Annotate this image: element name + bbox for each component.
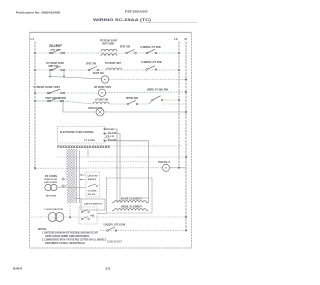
wire row3 to N (109, 79, 186, 81)
svg-text:4 WIRE AT WK: 4 WIRE AT WK (140, 46, 161, 49)
junction row5-L2 (178, 99, 180, 101)
faint header rule (140, 22, 197, 24)
switch S4 right front surface unit (51, 69, 53, 71)
terminal pin B (62, 185, 64, 187)
svg-text:6/04: 6/04 (13, 267, 23, 271)
wire motor to latch box (57, 187, 86, 189)
junction row4-N (185, 91, 187, 93)
svg-text:3P3T SW: 3P3T SW (120, 46, 131, 49)
svg-text:*L REAR SURF UNIT: *L REAR SURF UNIT (33, 86, 61, 89)
contact K1c (92, 215, 94, 217)
wire row5 (35, 100, 63, 102)
ribbon cable hatched column (67, 149, 76, 203)
wire row2 right front surface unit (35, 69, 179, 71)
wire column tail (69, 203, 71, 218)
junction row3 b (63, 76, 65, 78)
junction neutral-N (185, 216, 187, 218)
wire EOC pin4 dashed (105, 145, 183, 147)
svg-text:FEF352ASG: FEF352ASG (125, 10, 149, 14)
svg-text:ASSY: ASSY (88, 178, 98, 181)
wire L1 bus (34, 42, 36, 171)
wire row5 to L2 (162, 99, 179, 101)
motor M1 door latch (45, 184, 51, 190)
svg-text:LATCH SW: LATCH SW (88, 175, 99, 178)
switch S2 (126, 52, 128, 54)
wire row5 join (109, 103, 128, 105)
svg-text:D5EN363: D5EN363 (107, 240, 123, 244)
contact K1a (81, 211, 83, 213)
svg-text:COM: COM (88, 191, 97, 193)
wire L2 bus (178, 42, 180, 169)
wire row3 drop a (49, 70, 51, 77)
wire ribbon left edge (65, 149, 67, 178)
svg-text:SURF SIG: SURF SIG (93, 72, 104, 75)
svg-text:APPLIANCE WIRE AND GROUNDS: APPLIANCE WIRE AND GROUNDS (45, 235, 90, 238)
switch S6 three wire (146, 69, 148, 71)
wire mid dotted second (88, 161, 149, 163)
junction node row2 b (63, 69, 65, 71)
switch S10 (49, 100, 51, 102)
interlock contact box (79, 207, 97, 224)
bake broil element box (107, 178, 153, 213)
wire row4 (35, 92, 98, 94)
latch switch box (86, 172, 100, 197)
junction row5 b (62, 100, 64, 102)
svg-text:SURF: SURF (49, 44, 62, 48)
lamp oven light (96, 108, 104, 116)
arrow pin2 (103, 133, 105, 135)
wire bake feed b (119, 178, 121, 203)
svg-text:L2: L2 (174, 37, 178, 41)
wire stub strip drop (87, 149, 89, 157)
wire row3 (50, 77, 101, 79)
wire row3 drop b (63, 70, 65, 77)
switch S1 right rear surface unit (51, 52, 53, 54)
contact K1b (81, 218, 83, 220)
wire L1 lower feed (35, 167, 163, 169)
junction row4 a (47, 92, 49, 94)
svg-text:GROUNDED AT WALL RECEPTACLE: GROUNDED AT WALL RECEPTACLE (45, 242, 85, 245)
wire row6 to N (104, 111, 186, 113)
svg-text:UNIT SW 1250W: UNIT SW 1250W (45, 97, 67, 100)
diagram border frame (30, 32, 192, 248)
junction L1 lower (34, 167, 36, 169)
svg-text:L1: L1 (31, 37, 35, 41)
svg-text:NOTE:: NOTE: (38, 228, 47, 231)
svg-text:UNIT 2100W: UNIT 2100W (102, 43, 115, 46)
arrow pin1 (103, 128, 105, 130)
interlock switch box (81, 199, 105, 210)
svg-text:ELECTRONIC OVEN CONTROL: ELECTRONIC OVEN CONTROL (60, 131, 95, 134)
wire EOC pin1 (105, 129, 117, 178)
junction node row1 b (63, 52, 65, 54)
switch S5 (88, 69, 90, 71)
junction row2-L2 (178, 69, 180, 71)
junction row1-L1 (34, 52, 36, 54)
wire mid dotted to N (57, 156, 186, 158)
wire N bus (185, 42, 187, 233)
svg-text:1. SWITCHES SHOWN IN OFF POSIT: 1. SWITCHES SHOWN IN OFF POSITION. DIAGR… (42, 232, 99, 235)
wire row6 drop (62, 101, 64, 112)
arrow pin4 (103, 140, 105, 142)
switch S7 left rear surface unit (49, 92, 51, 94)
svg-text:* DOOR LATCH SW: * DOOR LATCH SW (103, 224, 126, 227)
lamp DS1 surface signal (101, 76, 108, 83)
svg-text:WIRE AT WK SW: WIRE AT WK SW (147, 89, 169, 92)
svg-text:MOTOR: MOTOR (46, 195, 57, 197)
wire EOC pin2 (105, 134, 120, 179)
junction row4 b (63, 92, 65, 94)
junction row2-L1 (34, 69, 36, 71)
lamp DS3 oven signal (163, 164, 170, 171)
electronic oven control box (58, 127, 106, 144)
junction latch row N (185, 230, 187, 232)
wire door latch row (100, 230, 186, 232)
wire arrow into latch box (80, 174, 86, 176)
junction lamp-L2 (178, 167, 180, 169)
wire column to contact box (75, 198, 81, 200)
junction node row1 a (49, 52, 51, 54)
svg-text:OVEN LIGHT: OVEN LIGHT (88, 107, 103, 110)
switch S9 (152, 99, 154, 101)
switch S11 door latch (107, 230, 109, 232)
lamp DS2 (98, 89, 105, 96)
wire row5 tail to N (162, 103, 186, 105)
border top solid edge (30, 31, 192, 33)
svg-text:N: N (185, 37, 187, 41)
svg-text:SP SURF UNIT: SP SURF UNIT (94, 86, 112, 89)
element bake coil (112, 201, 148, 203)
terminal pin A (62, 178, 64, 180)
svg-text:WIRING SC-65AA (TC): WIRING SC-65AA (TC) (93, 18, 152, 22)
wire row6 (63, 111, 96, 113)
svg-text:P2-3 R: P2-3 R (106, 136, 114, 138)
svg-text:3P3T SW: 3P3T SW (86, 63, 97, 66)
svg-text:Publication No. 5995416498: Publication No. 5995416498 (16, 11, 60, 15)
junction mid-N (185, 156, 187, 158)
svg-text:LATCH SWITCH: LATCH SWITCH (84, 203, 102, 206)
svg-text:LF UNIT SW: LF UNIT SW (95, 99, 109, 102)
wire contact block to element box (97, 213, 107, 215)
wire EOC pin3b stub (105, 137, 110, 139)
junction node row2 a (49, 69, 51, 71)
svg-text:3 WIRE AT WK: 3 WIRE AT WK (141, 61, 162, 64)
element right rear surface unit dual coil (101, 49, 117, 51)
junction column-neutral (69, 216, 71, 218)
svg-text:P1 KYBD: P1 KYBD (84, 140, 95, 142)
svg-text:LATCH MTR: LATCH MTR (44, 181, 57, 184)
wire long dotted neutral (31, 216, 186, 218)
junction row1-L2 (178, 52, 180, 54)
svg-text:OVEN SIG LT: OVEN SIG LT (158, 161, 170, 164)
svg-text:BAKE ELEMENT: BAKE ELEMENT (121, 197, 143, 200)
svg-text:3P5R SW: 3P5R SW (126, 97, 139, 100)
svg-text:P3 CONN: P3 CONN (45, 176, 57, 178)
junction row5 a (47, 100, 49, 102)
wire arrow into latch box b (80, 179, 86, 181)
wire row1 right rear surface unit (35, 52, 179, 54)
junction row3 a (49, 76, 51, 78)
switch S8 (127, 103, 129, 105)
junction row3-N (185, 79, 187, 81)
svg-text:2. COMPONENTS WITH * IN THE RE: 2. COMPONENTS WITH * IN THE RED LETTER O… (42, 238, 106, 241)
svg-text:N.O.: N.O. (88, 194, 98, 196)
motor M2 (48, 213, 57, 222)
junction row5-L1 (34, 100, 36, 102)
svg-text:P2-1 BK: P2-1 BK (106, 129, 114, 131)
svg-text:BROIL ELEMENT: BROIL ELEMENT (121, 207, 143, 209)
svg-text:13: 13 (105, 267, 110, 271)
wire extra vertical (79, 150, 81, 203)
wire lamp to N (170, 167, 187, 169)
switch S3 four wire (146, 52, 148, 54)
wire EOC pin3 lamp feed (105, 141, 149, 203)
junction row4-L1 (34, 92, 36, 94)
element right front surface unit coil (106, 68, 122, 70)
element left front surface unit coil (93, 102, 109, 104)
contact latch switch (88, 184, 96, 187)
svg-text:RT FRONT UNIT: RT FRONT UNIT (105, 62, 121, 65)
svg-text:#xxxxxxxxxxxxxxxxxxx: #xxxxxxxxxxxxxxxxxxx (57, 144, 111, 149)
element broil coil (112, 209, 148, 211)
junction row6-N (185, 111, 187, 113)
wire ribbon right edge (75, 149, 77, 203)
svg-text:OVEN DOOR: OVEN DOOR (44, 179, 57, 181)
wire broil feed vertical (141, 197, 149, 199)
wire bake feed a (116, 178, 118, 203)
svg-text:* LATCH MOTOR: * LATCH MOTOR (44, 208, 63, 211)
